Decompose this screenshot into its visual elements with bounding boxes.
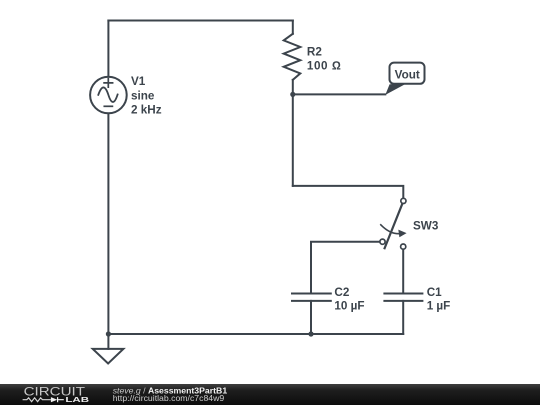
svg-text:LAB: LAB <box>65 395 89 404</box>
junction dot <box>106 331 111 336</box>
svg-text:C2: C2 <box>334 286 349 299</box>
wire <box>310 301 312 334</box>
svg-text:V1: V1 <box>131 75 146 88</box>
svg-text:10 µF: 10 µF <box>334 300 364 313</box>
label R2 <box>307 45 341 72</box>
wire <box>292 80 294 186</box>
label V1 <box>131 75 162 116</box>
svg-text:http://circuitlab.com/c7c84w9: http://circuitlab.com/c7c84w9 <box>113 393 225 403</box>
svg-text:Vout: Vout <box>395 69 420 82</box>
svg-text:SW3: SW3 <box>413 219 439 232</box>
node flag Vout <box>385 63 424 95</box>
capacitor C1 <box>384 294 422 301</box>
svg-text:R2: R2 <box>307 45 322 58</box>
wire <box>293 186 404 198</box>
label C1 <box>427 286 451 313</box>
wire <box>311 242 379 294</box>
wire <box>108 20 292 22</box>
svg-text:2 kHz: 2 kHz <box>131 103 162 116</box>
CircuitLab logo <box>23 385 90 405</box>
svg-text:C1: C1 <box>427 286 442 299</box>
footer bar <box>0 384 540 405</box>
wire <box>107 113 109 334</box>
label C2 <box>334 286 364 313</box>
wire <box>108 333 403 335</box>
resistor R2 <box>284 34 301 80</box>
junction dot <box>308 331 313 336</box>
wire <box>402 250 404 294</box>
wire <box>107 21 109 77</box>
wire <box>292 21 294 34</box>
svg-text:100 Ω: 100 Ω <box>307 60 341 73</box>
wire <box>293 93 386 95</box>
footer title text <box>113 385 228 403</box>
switch SW3 <box>380 198 407 249</box>
svg-text:1 µF: 1 µF <box>427 300 451 313</box>
svg-text:sine: sine <box>131 90 155 103</box>
junction dot <box>290 92 295 97</box>
voltage source V1 <box>90 77 127 114</box>
wire <box>402 301 404 334</box>
capacitor C2 <box>292 294 331 301</box>
ground <box>93 334 124 364</box>
